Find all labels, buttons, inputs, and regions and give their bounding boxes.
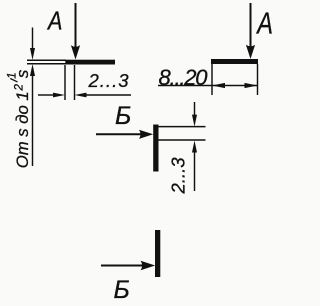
label А (view A, top-left) [46,8,62,36]
svg-text:А: А [46,8,62,36]
svg-text:Б: Б [115,102,131,130]
dimension 8...20 (top-right, horizontal with outward arrows) [158,83,258,88]
svg-text:От s до 1: От s до 1 [13,91,32,168]
svg-text:2: 2 [14,84,26,92]
rotated note: От s до 1 1/2 s [6,69,32,168]
view arrow A (top-right, pointing down) [246,3,255,59]
plate (thick bar, top-right) [211,59,258,64]
top plate (thick bar, top-left joint) [65,60,115,65]
dimension 2...3 (top-left, horizontal) [38,93,131,98]
sheet edge (thick vertical bar, bottom) [155,230,160,277]
rotated dimension text 2...3 (middle) [168,157,189,195]
svg-text:Б: Б [114,276,130,304]
view arrow Б (bottom, pointing right) [101,261,155,270]
extension lines of overlap dimension (top-left) [65,65,75,100]
extension lines (top-right dimension) [212,64,258,95]
thickness dimension s (left vertical line with arrows) [30,28,35,167]
svg-text:2...3: 2...3 [88,70,130,91]
sheet edge (thick vertical bar, middle) [153,125,158,172]
label А (view A, top-right) [255,5,272,40]
svg-text:8...20: 8...20 [159,65,209,90]
thin sheet (two surface lines, top-left joint) [27,60,66,63]
vertical dimension 2...3 (middle) [192,102,197,191]
svg-text:А: А [255,5,272,40]
overlap surface lines (middle) [159,127,206,140]
svg-text:2...3: 2...3 [168,157,189,195]
view arrow A (top-left, pointing down) [71,3,80,60]
svg-text:s: s [13,69,32,78]
view arrow Б (middle, pointing right) [96,130,153,139]
